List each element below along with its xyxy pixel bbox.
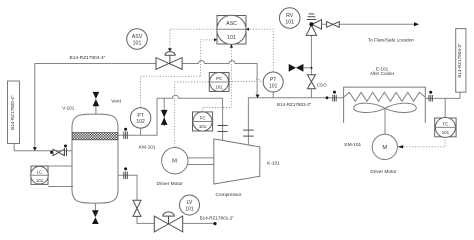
svg-text:LV: LV (187, 200, 193, 206)
wire LC taps (48, 166, 73, 187)
svg-text:After Cooler: After Cooler (370, 71, 395, 76)
junction arrow recycle into discharge (256, 95, 260, 98)
svg-text:PT: PT (270, 77, 276, 83)
svg-text:101: 101 (36, 178, 44, 183)
signal TC to fan motor (398, 137, 446, 149)
vessel V-101 (72, 114, 118, 203)
label Vent (111, 99, 121, 105)
signal ASC to FC (202, 44, 233, 111)
svg-text:To Flare/Safe Location: To Flare/Safe Location (368, 38, 414, 43)
svg-text:LC: LC (37, 169, 43, 174)
svg-text:ASC: ASC (226, 21, 237, 27)
label Driver Motor right (370, 169, 397, 175)
closed bypass valve at relief (289, 64, 313, 72)
instrument LV-101 (180, 195, 200, 215)
svg-text:Vent: Vent (111, 99, 121, 105)
label After Cooler (370, 71, 395, 76)
svg-text:101: 101 (133, 40, 142, 46)
vent valve (closed) (93, 92, 100, 114)
flange pair suction (218, 126, 228, 132)
svg-text:Driver Motor: Driver Motor (370, 169, 397, 175)
svg-text:KM-101: KM-101 (139, 145, 156, 151)
wire PT-101 process tap (272, 92, 274, 98)
label To Flare/Safe Location (368, 38, 414, 43)
signal PC to PT-101 (229, 79, 263, 82)
relief valve PSV (306, 14, 321, 36)
svg-text:101: 101 (185, 206, 194, 212)
valve feed inlet (50, 145, 67, 157)
nozzle spool cooler inlet (333, 91, 336, 102)
wire feed line (14, 144, 72, 151)
svg-text:B14-RZ17802-4": B14-RZ17802-4" (70, 55, 106, 61)
shaft motor to compressor (188, 158, 214, 165)
label KM-101 (139, 145, 156, 151)
svg-text:101: 101 (215, 85, 223, 90)
svg-text:B14-RZ17801-2": B14-RZ17801-2" (200, 215, 235, 220)
label B14-RZ17803-3" (277, 102, 312, 107)
off-page label B14-RZ17804-3" (456, 29, 466, 93)
instrument LC-101 (31, 166, 49, 184)
label Compressor (215, 192, 242, 198)
svg-text:ASV: ASV (132, 34, 143, 40)
svg-text:102: 102 (136, 119, 145, 125)
relief line from discharge (310, 35, 312, 98)
svg-text:Compressor: Compressor (215, 192, 242, 198)
label CSO (317, 83, 327, 88)
wire flare line (322, 22, 420, 26)
compressor K-101 (214, 139, 260, 184)
svg-text:B14-RZ17800-4": B14-RZ17800-4" (10, 95, 15, 130)
signal PT-102 to ASC (141, 38, 218, 107)
instrument PT-101 (263, 72, 283, 92)
instrument TC-101 (435, 117, 456, 137)
signal PT-101 to ASC (246, 28, 273, 72)
nozzle spool drain (124, 167, 128, 179)
wire TC tap (444, 98, 446, 118)
instrument FC-101 (193, 112, 213, 131)
svg-text:K-101: K-101 (267, 160, 280, 166)
junction dot cooler inlet (326, 96, 329, 99)
label B14-RZ17802-4" (70, 55, 106, 61)
off-page label B14-RZ17800-4" (8, 81, 20, 144)
svg-text:B14-RZ17804-3": B14-RZ17804-3" (457, 43, 462, 78)
svg-text:EM-101: EM-101 (344, 142, 361, 148)
svg-text:CSO: CSO (317, 83, 327, 88)
label K-101 (267, 160, 280, 166)
wire PT-102 process tap (140, 128, 142, 135)
svg-text:FC: FC (200, 116, 206, 121)
svg-text:V-101: V-101 (62, 106, 74, 111)
svg-text:101: 101 (199, 124, 207, 129)
control valve ASV with actuator (156, 52, 182, 70)
bottom drain valve (closed) (92, 203, 99, 224)
wire LV drain line (119, 175, 215, 223)
label EM-101 (344, 142, 361, 148)
instrument RV-101 (279, 8, 300, 29)
junction arrow recycle into feed (33, 147, 37, 151)
after cooler E-101 (344, 87, 426, 134)
wire cooler outlet (425, 92, 460, 98)
manual valve drain (133, 200, 141, 216)
flange pair discharge (243, 130, 254, 136)
instrument PT-102 (130, 108, 150, 128)
svg-text:Driver Motor: Driver Motor (157, 181, 184, 187)
svg-text:B14-RZ17803-3": B14-RZ17803-3" (277, 102, 312, 107)
label V-101 (62, 106, 74, 111)
fan motor EM-101 (372, 134, 397, 159)
svg-text:101: 101 (269, 83, 278, 89)
svg-text:M: M (382, 145, 387, 151)
wire recycle line B14-RZ17802-4" (35, 61, 257, 151)
svg-text:PC: PC (216, 76, 222, 81)
nozzle spool on suction (124, 128, 128, 139)
end dot B14-RZ17801-2" (213, 222, 216, 225)
nozzle spool cooler outlet (429, 91, 433, 102)
svg-text:101: 101 (442, 130, 450, 135)
label B14-RZ17801-2" (200, 215, 235, 220)
instrument PC-101 (209, 73, 229, 92)
instrument ASV-101 (127, 29, 148, 50)
label E-101 (376, 66, 389, 71)
signal PC to driver motor (175, 82, 209, 147)
stub valve on suction (closed) (161, 98, 168, 126)
svg-text:TC: TC (442, 122, 449, 127)
svg-text:RV: RV (286, 13, 294, 19)
svg-text:PT: PT (137, 113, 143, 119)
signal ASC to ASV (168, 29, 217, 51)
wire discharge line B14-RZ17803-3" (248, 98, 343, 145)
valve CSO (307, 75, 315, 89)
wire suction line vessel to compressor (119, 95, 223, 140)
control valve LV with actuator (154, 212, 182, 232)
label Driver Motor (157, 181, 184, 187)
svg-text:101: 101 (227, 35, 236, 41)
svg-text:M: M (172, 158, 177, 164)
instrument ASC-101 (217, 15, 246, 44)
driver motor KM-101 (162, 148, 188, 174)
svg-text:101: 101 (285, 19, 294, 25)
valve flare line (327, 22, 340, 28)
